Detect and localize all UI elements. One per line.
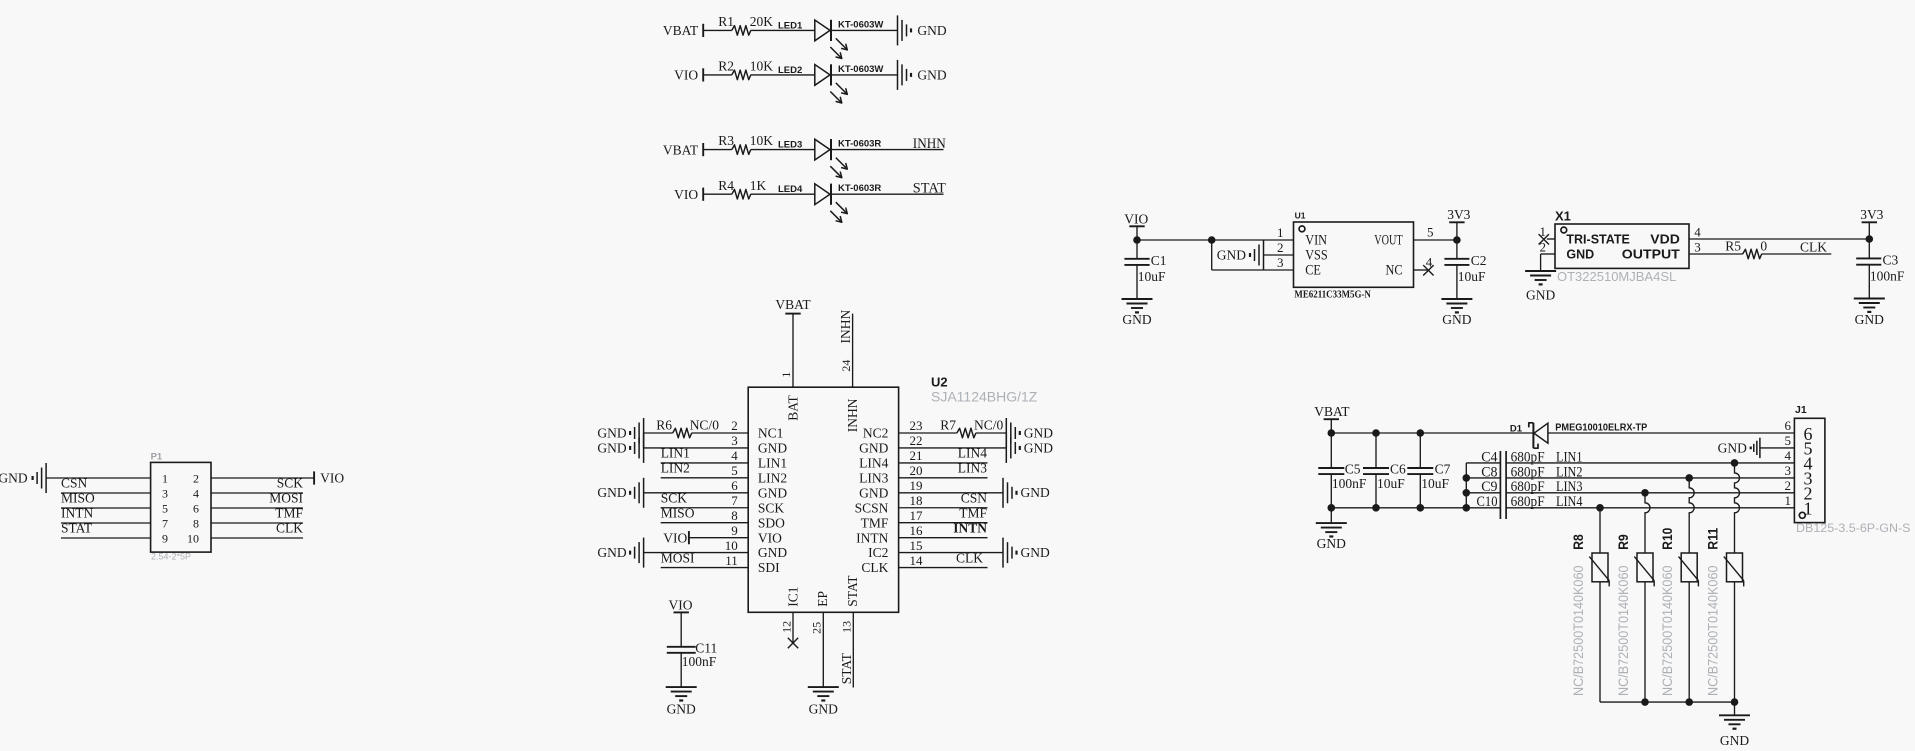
svg-text:6: 6 [1785,418,1792,433]
svg-text:STAT: STAT [913,181,946,197]
svg-text:INHN: INHN [838,310,853,344]
capacitor C5 100nF [1318,433,1367,508]
svg-text:C3: C3 [1883,252,1899,267]
wire R4 to LED4 [751,193,815,195]
svg-text:KT-0603R: KT-0603R [838,183,881,194]
svg-text:8: 8 [731,508,738,523]
svg-text:MISO: MISO [661,505,695,520]
junction 3V3/C3 [1866,235,1874,243]
wire P1 to TMF [211,522,303,524]
svg-text:KT-0603W: KT-0603W [838,19,883,30]
wire VBAT to R3 [703,149,732,151]
resistor R2 [718,59,773,80]
svg-text:20K: 20K [750,14,774,29]
svg-text:NC1: NC1 [758,426,784,441]
wire VIO to R4 [703,193,732,195]
wire U2 to LIN3 [899,477,988,479]
svg-text:R5: R5 [1725,238,1741,253]
svg-text:VSS: VSS [1305,248,1328,264]
wire U2 pin23 to R7 [899,432,957,434]
svg-text:GND: GND [597,485,626,500]
connector J1 DB125-3.5-6P-GN-S body [1794,418,1825,522]
pin name GND pin 10 (U2) [725,538,788,560]
svg-text:8: 8 [193,516,199,530]
pin number 4 external (J1) [1785,448,1792,463]
net label SCK (U2 left) [661,490,688,505]
wire VIO node to U1 VIN [1137,239,1294,241]
wire R5 to CLK [1762,253,1832,255]
port VBAT net flag (LED row 3) [663,142,703,157]
svg-text:NC/0: NC/0 [974,417,1004,432]
svg-text:OT322510MJBA4SL: OT322510MJBA4SL [1557,269,1676,284]
ground GND (X1 pin2) [1525,271,1556,302]
varistor R9 NC/B72500T0140K060 [1615,534,1654,696]
svg-text:10uF: 10uF [1377,476,1405,491]
svg-text:14: 14 [910,553,924,568]
pin name LIN2 pin 5 (U2) [731,463,787,485]
pin number 1 external (J1) [1785,493,1792,508]
svg-text:KT-0603W: KT-0603W [838,64,883,75]
net label STAT (U2 pin13) [839,652,854,684]
pin number 5 internal (J1) [1804,439,1813,459]
wire D1 to J1 pin6 [1548,432,1794,434]
IC U2 SJA1124BHG/1Z body [748,387,898,612]
svg-text:GND: GND [1526,287,1555,302]
port VBAT net flag (LED row 1) [663,23,703,38]
capacitor C10 680pF labels [1477,494,1545,510]
capacitor C4 680pF labels [1481,449,1544,465]
capacitor C6 10uF [1363,433,1406,508]
wire U1 VOUT to 3V3 [1414,239,1457,241]
wire P1 to MOSI [211,507,303,509]
svg-text:LIN2: LIN2 [758,470,787,485]
pin number 3 (P1) [162,486,168,500]
LED LED3 KT-0603R [778,139,881,178]
label 2.54-2*5P [151,552,191,563]
pin name NC2 pin 23 (U2) [863,418,923,440]
svg-text:VBAT: VBAT [663,23,699,38]
svg-text:R2: R2 [718,59,734,74]
port VBAT net flag (U2 pin1) [775,297,811,314]
pin name IC2 pin 15 (U2) [868,538,922,560]
svg-text:R4: R4 [718,178,734,193]
svg-text:INTN: INTN [856,530,888,545]
svg-text:IC2: IC2 [868,545,888,560]
wire U2 pin14 to CLK [899,567,988,569]
svg-text:TMF: TMF [861,515,889,530]
wire R1 to LED1 [751,29,815,31]
svg-text:GND: GND [1317,536,1346,551]
pin name LIN1 pin 4 (U2) [731,448,787,470]
LED LED4 KT-0603R [778,183,881,222]
LED LED1 KT-0603W [778,19,883,58]
svg-text:STAT: STAT [61,521,93,536]
svg-text:VIO: VIO [674,187,698,202]
pin name EP pin 25 (U2) [809,591,830,634]
net label LIN4 (U2 right) [958,446,987,461]
svg-text:J1: J1 [1795,404,1807,416]
resistor R6 NC/0 [656,417,719,437]
wire MOSI to U2 [661,567,749,569]
svg-text:GND: GND [1720,733,1749,748]
ground GND (C3) [1854,299,1885,328]
svg-text:23: 23 [910,418,923,433]
svg-text:OUTPUT: OUTPUT [1622,248,1680,262]
wire R8 to bottom bus [1599,582,1601,702]
wire C11 to GND [680,653,682,687]
svg-text:SJA1124BHG/1Z: SJA1124BHG/1Z [931,389,1038,405]
svg-text:VBAT: VBAT [1314,404,1350,419]
svg-text:5: 5 [1427,224,1434,239]
wire GND to U2 pin3 [644,447,749,449]
varistor R8 NC/B72500T0140K060 [1570,534,1609,696]
svg-text:GND: GND [758,485,787,500]
oscillator X1 OT322510MJBA4SL body [1555,224,1689,268]
svg-text:10K: 10K [750,133,774,148]
svg-text:2: 2 [193,471,199,485]
ground GND (C5 bus) [1316,508,1347,551]
net label MISO (P1) [61,491,95,506]
pin name VDD pin 4 (X1) [1650,224,1701,246]
svg-text:CE: CE [1305,263,1321,279]
net label SCK (P1) [277,476,304,491]
junction rail/bus [1463,504,1471,512]
pin number 2 internal (J1) [1804,484,1813,504]
svg-text:C9: C9 [1481,479,1497,495]
pin number 2 (P1) [193,471,199,485]
svg-text:INHN: INHN [845,398,860,432]
wire 3V3 down to node [1456,222,1458,240]
pin name GND pin 2 (X1) [1540,239,1595,261]
wire U1 NC stub [1414,269,1429,271]
svg-text:2: 2 [1785,478,1792,493]
svg-text:1: 1 [779,372,793,378]
wire GND to U2 [644,492,749,494]
wire VIO to R2 [703,74,732,76]
svg-text:LED2: LED2 [778,65,802,76]
capacitor C11 100nF [667,641,718,670]
svg-text:VIO: VIO [320,471,344,486]
wire LIN2 to U2 [661,477,749,479]
svg-text:NC/B72500T0140K060: NC/B72500T0140K060 [1615,565,1631,696]
svg-text:1: 1 [1277,225,1284,240]
svg-text:4: 4 [731,448,738,463]
wire R6 to U2 pin2 [692,432,749,434]
pin name TMF pin 17 (U2) [861,508,923,530]
svg-text:NC/B72500T0140K060: NC/B72500T0140K060 [1659,565,1675,696]
wire P1 to CLK [211,537,303,539]
svg-text:3: 3 [1785,463,1792,478]
svg-text:MOSI: MOSI [269,491,303,506]
ground GND (P1 pin1) [0,463,46,493]
wire STAT to P1 [61,537,151,539]
svg-text:R3: R3 [718,133,734,148]
junction VBAT/C5 [1328,429,1336,437]
ground GND (U2 right) [1003,478,1050,508]
svg-text:LIN3: LIN3 [958,461,987,476]
svg-text:NC: NC [1386,263,1403,279]
svg-text:25: 25 [809,622,823,634]
pin number 3 external (J1) [1785,463,1792,478]
svg-text:3: 3 [1694,239,1701,254]
pin name SDO pin 8 (U2) [731,508,785,530]
wire VIN to CE (U1 pin3) [1212,240,1294,270]
svg-text:GND: GND [1718,440,1747,455]
net label INTN (P1) [61,506,93,521]
net label LIN3 [1556,479,1583,495]
svg-text:10K: 10K [750,59,774,74]
svg-text:VOUT: VOUT [1374,233,1402,249]
svg-text:U1: U1 [1295,210,1306,220]
net label LIN4 [1556,494,1583,510]
svg-text:LIN4: LIN4 [859,456,888,471]
IC U1 ME6211C33M5G-N body [1294,222,1414,287]
port 3V3 (X1) [1860,207,1883,222]
svg-text:INTN: INTN [953,520,987,535]
diode D1 PMEG10010ELRX-TP [1510,423,1648,449]
svg-text:GND: GND [1217,247,1246,262]
no-connect X on U2 pin12 [788,638,798,648]
svg-text:17: 17 [910,508,924,523]
svg-text:R8: R8 [1570,534,1586,550]
wire R11 to bottom bus [1734,582,1736,702]
svg-text:BAT: BAT [786,395,801,421]
svg-text:CLK: CLK [861,560,888,575]
wire LIN1 to J1 pin4 [1506,462,1794,464]
junction rail/C8 [1463,474,1471,482]
svg-text:C6: C6 [1390,462,1406,477]
net label CLK (X1) [1800,240,1827,255]
svg-text:DB125-3.5-6P-GN-S: DB125-3.5-6P-GN-S [1796,521,1911,535]
wire U2 to CSN [899,507,988,509]
wire GND to U2 [644,552,749,554]
svg-text:VBAT: VBAT [663,142,699,157]
svg-text:10uF: 10uF [1458,269,1486,284]
junction bus/C6 bottom [1372,504,1380,512]
svg-text:9: 9 [162,531,168,545]
svg-text:GND: GND [597,425,626,440]
junction rail/C9 [1463,489,1471,497]
svg-text:2: 2 [731,418,738,433]
wire LED4 cathode, net STAT [831,193,944,195]
svg-text:22: 22 [910,433,923,448]
wire LED2 cathode to GND [831,74,898,76]
pin name IC1 pin 12 (U2) [779,586,800,632]
svg-text:100nF: 100nF [682,654,717,669]
svg-text:C2: C2 [1471,253,1487,268]
junction R11 tap [1731,459,1739,467]
svg-text:GND: GND [597,545,626,560]
wire 3V3 down to node [1868,222,1870,239]
svg-text:4: 4 [1785,448,1792,463]
wire U2 pin13, net STAT [852,612,854,687]
wire R7 to GND [976,432,1007,434]
pin number 6 (P1) [193,501,199,515]
svg-text:4: 4 [1694,224,1701,239]
svg-text:GND: GND [1021,485,1050,500]
wire LED3 cathode, net INHN [831,149,944,151]
junction R10 bus [1685,698,1693,706]
capacitor C3 100nF [1856,239,1905,299]
net label MOSI (U2 left) [661,550,695,565]
wire LIN1 to U2 [661,462,749,464]
label U1 [1295,210,1306,220]
wire net INHN to U2 pin24 [852,314,854,388]
resistor R5 0 [1725,238,1767,258]
net label STAT [913,181,946,197]
net label CSN (U2 right) [961,490,988,505]
pin name INTN pin 16 (U2) [856,523,923,545]
wire R10 to bottom bus [1688,582,1690,702]
junction bus/C7 top [1417,429,1425,437]
svg-text:R6: R6 [656,417,672,432]
svg-text:GND: GND [859,485,888,500]
svg-text:SCSN: SCSN [855,500,889,515]
net label STAT (P1) [61,521,93,536]
svg-text:13: 13 [839,621,853,633]
label P1 [151,451,163,462]
svg-text:NC/0: NC/0 [690,417,720,432]
net label MOSI (P1) [269,491,303,506]
wire CSN to P1 [61,492,151,494]
label X1 [1555,208,1571,223]
wire U2 pin25 EP to GND [822,612,824,687]
pin name LIN3 pin 20 (U2) [859,463,922,485]
junction 3V3/C2 [1453,236,1461,244]
LED LED2 KT-0603W [778,64,883,103]
wire X1 pin2 to GND [1541,254,1555,270]
pin name GND pin 3 (U2) [731,433,787,455]
ground GND (U2 left) [597,478,643,508]
svg-text:TRI-STATE: TRI-STATE [1566,233,1629,247]
svg-text:LIN2: LIN2 [661,461,690,476]
junction bus/C7 bottom [1417,504,1425,512]
wire R11 drop with hops [1735,463,1740,553]
pin name STAT pin 13 (U2) [839,575,860,633]
varistor R10 NC/B72500T0140K060 [1659,528,1698,696]
pin number 6 external (J1) [1785,418,1792,433]
svg-text:16: 16 [910,523,924,538]
svg-text:3: 3 [1277,255,1284,270]
wire U2 pin22 to GND [899,447,1007,449]
svg-text:LIN4: LIN4 [958,446,987,461]
pin name BAT pin 1 (U2) [779,372,801,421]
svg-text:TMF: TMF [959,505,987,520]
wire GND to R6 [644,432,673,434]
port VIO net flag (LED row 2) [674,68,703,83]
svg-text:GND: GND [917,68,946,83]
wire U2 to TMF [899,522,988,524]
pin name NC pin 4 (U1) [1386,255,1433,279]
svg-text:CLK: CLK [956,550,983,565]
svg-text:STAT: STAT [839,652,854,684]
wire MISO to U2 [661,522,749,524]
wire GND bottom bus [1331,507,1500,509]
wire X1 pin1 stub [1547,238,1555,240]
svg-text:VIO: VIO [669,597,693,612]
resistor R7 NC/0 [940,417,1003,437]
pin number 10 (P1) [187,531,199,545]
resistor R1 [718,14,773,35]
ground GND (U2 pin23) [1006,418,1053,448]
svg-text:GND: GND [809,701,838,716]
net label LIN1 (U2 left) [661,446,690,461]
net label MISO (U2 left) [661,505,695,520]
svg-text:6: 6 [193,501,199,515]
wire VIO to C11 [680,612,682,646]
svg-text:1: 1 [162,471,168,485]
svg-text:U2: U2 [931,374,948,389]
net label LIN1 [1556,449,1583,465]
pin name VIO pin 9 (U2) [731,523,782,545]
junction R8 tap [1596,504,1604,512]
svg-text:C7: C7 [1435,462,1451,477]
pin name VSS pin 2 (U1) [1277,240,1328,264]
svg-text:GND: GND [1024,440,1053,455]
svg-text:10: 10 [187,531,199,545]
svg-text:R7: R7 [940,417,956,432]
svg-text:X1: X1 [1555,208,1571,223]
ground GND (U2 EP) [808,687,839,716]
svg-text:P1: P1 [151,451,163,462]
svg-text:1: 1 [1785,493,1792,508]
svg-text:NC/B72500T0140K060: NC/B72500T0140K060 [1570,565,1586,696]
svg-text:GND: GND [758,441,787,456]
svg-text:12: 12 [779,621,793,633]
ground GND (LED row 2) [898,60,947,90]
wire VIO down to node [1136,226,1138,240]
wire LED1 cathode to GND [831,29,898,31]
svg-text:GND: GND [1566,248,1594,262]
svg-text:EP: EP [815,591,830,607]
svg-text:VBAT: VBAT [775,297,811,312]
wire U2 to INTN [899,537,988,539]
pin name LIN4 pin 21 (U2) [859,448,922,470]
pin name INHN pin 24 (U2) [839,360,860,433]
wire GND to J1 pin5 [1760,447,1795,449]
net label TMF (P1) [275,506,303,521]
svg-text:3: 3 [162,486,168,500]
wire U2 to GND [899,552,1003,554]
svg-text:3V3: 3V3 [1447,207,1470,222]
svg-text:15: 15 [910,538,923,553]
label SJA1124BHG/1Z [931,389,1038,405]
svg-text:7: 7 [731,493,738,508]
label J1 [1795,404,1807,416]
svg-text:KT-0603R: KT-0603R [838,139,881,150]
pin number 9 (P1) [162,531,168,545]
svg-text:9: 9 [731,523,738,538]
svg-text:1K: 1K [750,178,767,193]
pin name VIN pin 1 (U1) [1277,225,1327,249]
pin number 1 internal (J1) [1804,499,1813,519]
svg-text:MISO: MISO [61,491,95,506]
svg-text:VIN: VIN [1305,233,1327,249]
net label LIN2 [1556,464,1583,480]
svg-text:VIO: VIO [674,68,698,83]
svg-text:6: 6 [731,478,738,493]
svg-text:LED3: LED3 [778,140,802,151]
svg-text:5: 5 [731,463,738,478]
pin name TRI-STATE pin 1 (X1) [1540,224,1630,247]
svg-text:R9: R9 [1615,534,1631,550]
svg-text:CLK: CLK [1800,240,1827,255]
svg-text:VIO: VIO [1124,212,1148,227]
pin name SDI pin 11 (U2) [725,553,780,575]
net label CLK (U2 pin14) [956,550,983,565]
svg-text:C8: C8 [1481,464,1497,480]
svg-text:GND: GND [917,23,946,38]
